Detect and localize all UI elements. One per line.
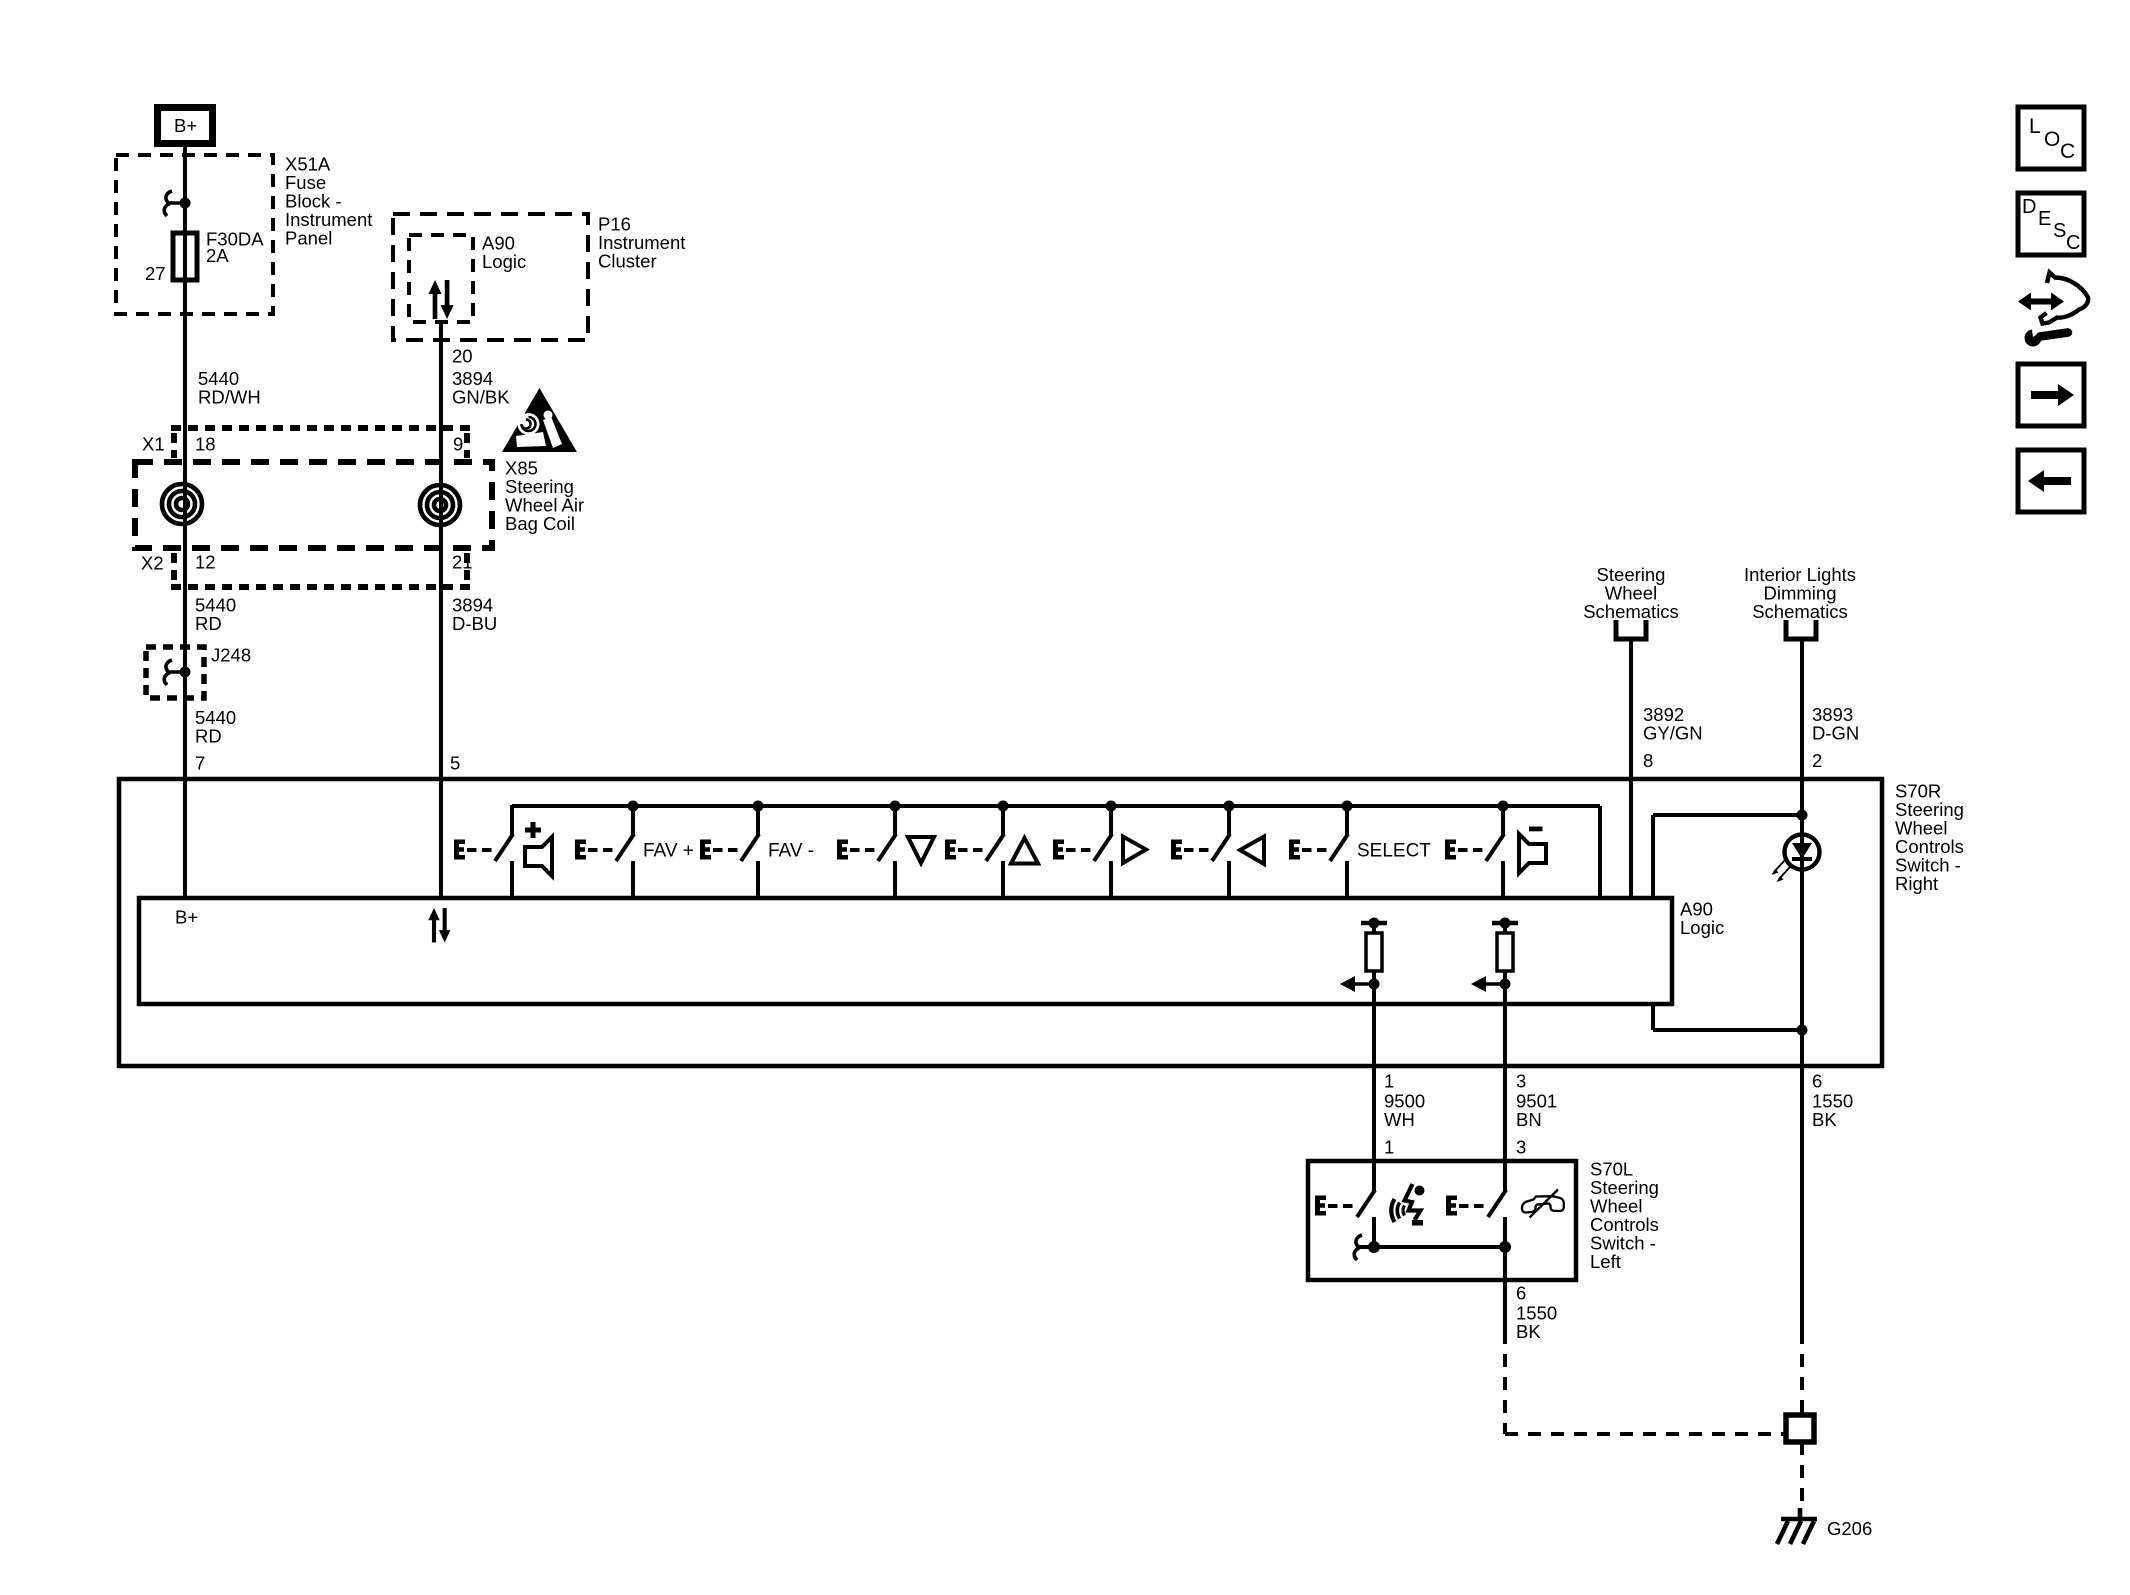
svg-text:Logic: Logic xyxy=(482,251,526,272)
svg-text:1: 1 xyxy=(1384,1071,1394,1092)
svg-text:Cluster: Cluster xyxy=(598,251,657,272)
svg-text:J248: J248 xyxy=(211,645,251,666)
svg-text:20: 20 xyxy=(452,346,473,367)
svg-text:8: 8 xyxy=(1643,750,1653,771)
svg-text:6: 6 xyxy=(1812,1071,1822,1092)
svg-text:Schematics: Schematics xyxy=(1752,601,1848,622)
svg-text:3: 3 xyxy=(1516,1137,1526,1158)
svg-text:Panel: Panel xyxy=(285,228,332,249)
svg-text:7: 7 xyxy=(195,753,205,774)
svg-text:X2: X2 xyxy=(141,553,164,574)
svg-text:SELECT: SELECT xyxy=(1357,841,1431,862)
svg-text:Logic: Logic xyxy=(1680,917,1724,938)
svg-text:Right: Right xyxy=(1895,873,1938,894)
svg-text:X1: X1 xyxy=(142,434,165,455)
svg-text:Schematics: Schematics xyxy=(1583,601,1679,622)
svg-text:B+: B+ xyxy=(174,115,197,136)
svg-text:S: S xyxy=(2053,220,2066,242)
svg-text:18: 18 xyxy=(195,434,216,455)
svg-text:GY/GN: GY/GN xyxy=(1643,723,1703,744)
svg-text:2: 2 xyxy=(1812,750,1822,771)
svg-text:FAV -: FAV - xyxy=(768,841,814,862)
svg-text:FAV +: FAV + xyxy=(643,841,694,862)
svg-text:D-GN: D-GN xyxy=(1812,723,1859,744)
svg-text:2A: 2A xyxy=(206,245,229,266)
svg-text:B+: B+ xyxy=(175,907,198,928)
svg-text:12: 12 xyxy=(195,552,216,573)
svg-text:E: E xyxy=(2038,208,2051,230)
svg-text:D-BU: D-BU xyxy=(452,613,497,634)
svg-text:G206: G206 xyxy=(1827,1518,1872,1539)
svg-text:O: O xyxy=(2044,128,2060,151)
svg-text:27: 27 xyxy=(145,263,166,284)
svg-text:BK: BK xyxy=(1812,1109,1837,1130)
svg-text:BK: BK xyxy=(1516,1321,1541,1342)
svg-text:6: 6 xyxy=(1516,1283,1526,1304)
svg-text:D: D xyxy=(2022,196,2036,218)
svg-text:1: 1 xyxy=(1384,1137,1394,1158)
svg-text:GN/BK: GN/BK xyxy=(452,387,510,408)
svg-text:BN: BN xyxy=(1516,1109,1542,1130)
svg-text:Left: Left xyxy=(1590,1251,1621,1272)
svg-text:RD: RD xyxy=(195,613,222,634)
svg-text:RD/WH: RD/WH xyxy=(198,387,261,408)
svg-text:RD: RD xyxy=(195,726,222,747)
svg-text:WH: WH xyxy=(1384,1109,1415,1130)
svg-text:5: 5 xyxy=(450,753,460,774)
svg-text:9: 9 xyxy=(453,434,463,455)
svg-text:L: L xyxy=(2029,115,2041,138)
svg-text:C: C xyxy=(2060,140,2075,163)
svg-text:21: 21 xyxy=(452,552,473,573)
svg-text:3: 3 xyxy=(1516,1071,1526,1092)
svg-text:C: C xyxy=(2066,232,2080,254)
svg-text:Bag Coil: Bag Coil xyxy=(505,513,575,534)
